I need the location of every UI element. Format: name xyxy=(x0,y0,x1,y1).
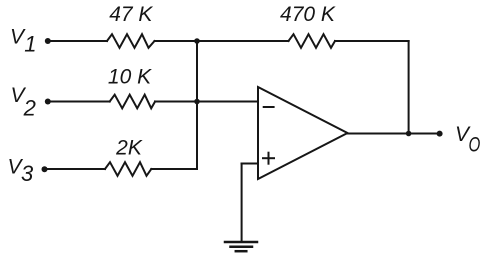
resistor R3 2K xyxy=(105,162,151,176)
wire V2 lead xyxy=(48,101,110,103)
ground xyxy=(225,242,257,251)
wire V1 lead xyxy=(47,40,107,42)
wire node A to feedback resistor xyxy=(155,40,289,42)
wire output xyxy=(348,133,440,135)
op-amp U1 xyxy=(258,87,348,179)
wire V3 lead xyxy=(44,168,105,170)
wire feedback top xyxy=(335,40,409,42)
svg-text:47 K: 47 K xyxy=(109,3,153,26)
output junction dot xyxy=(406,131,412,137)
svg-text:470 K: 470 K xyxy=(280,3,336,26)
resistor RF 470K xyxy=(289,34,336,48)
resistor R2 10K xyxy=(110,95,155,109)
terminal VO xyxy=(437,131,443,137)
terminal V1 xyxy=(45,38,51,44)
wire non-inverting input xyxy=(242,163,257,165)
svg-text:3: 3 xyxy=(21,161,34,186)
svg-text:O: O xyxy=(469,134,481,157)
wire V3 to node bus xyxy=(151,41,197,169)
wire to ground xyxy=(241,164,243,243)
node B junction dot xyxy=(194,99,200,105)
wire V2 to op-amp inverting input xyxy=(155,101,257,103)
svg-text:2: 2 xyxy=(23,95,36,120)
node A junction dot xyxy=(194,38,200,44)
svg-text:2K: 2K xyxy=(115,137,143,160)
terminal V3 xyxy=(42,166,48,172)
op-amp plus sign xyxy=(263,157,274,159)
wire feedback vertical xyxy=(408,41,410,134)
svg-text:1: 1 xyxy=(24,32,36,57)
op-amp minus sign xyxy=(264,106,274,108)
terminal V2 xyxy=(45,99,51,105)
svg-text:10 K: 10 K xyxy=(108,66,152,89)
resistor R1 47K xyxy=(107,34,155,48)
